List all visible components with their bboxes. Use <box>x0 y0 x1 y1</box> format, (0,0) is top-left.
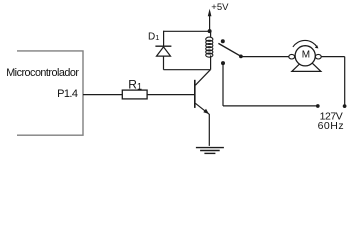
svg-text:P1.4: P1.4 <box>57 88 78 100</box>
svg-text:1: 1 <box>155 33 159 42</box>
svg-text:M: M <box>302 49 310 60</box>
svg-text:Microcontrolador: Microcontrolador <box>6 67 79 79</box>
svg-text:60Hz: 60Hz <box>318 120 344 132</box>
svg-text:1: 1 <box>137 82 142 92</box>
svg-text:R: R <box>128 78 137 92</box>
svg-text:+5V: +5V <box>211 2 229 13</box>
svg-text:D: D <box>148 31 155 42</box>
